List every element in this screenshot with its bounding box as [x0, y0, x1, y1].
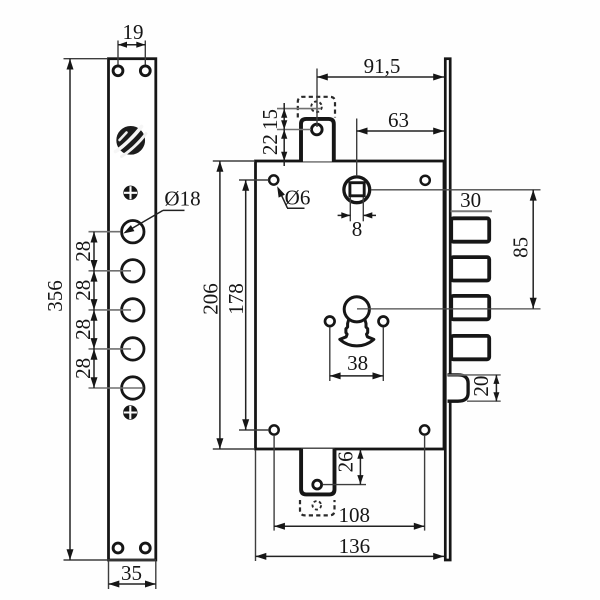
dimension 356 line	[69, 59, 71, 560]
bottom latch hole	[313, 480, 322, 489]
svg-text:178: 178	[224, 283, 248, 315]
brand logo circle	[117, 127, 144, 154]
latch bolt	[448, 375, 469, 401]
svg-text:28: 28	[71, 280, 95, 301]
svg-text:26: 26	[334, 451, 358, 472]
dimension 178 extension lines	[239, 179, 269, 181]
svg-text:38: 38	[347, 351, 368, 375]
faceplate bottom screw hole right	[140, 543, 150, 553]
faceplate bolt hole 1 (Ø18)	[122, 221, 144, 243]
faceplate bottom screw hole left	[113, 543, 123, 553]
spindle follower square	[350, 183, 364, 196]
svg-text:28: 28	[71, 319, 95, 340]
svg-text:63: 63	[388, 108, 409, 132]
top latch dashed hole	[311, 102, 322, 113]
body hole top-right	[421, 176, 430, 185]
svg-text:136: 136	[339, 534, 371, 558]
faceplate bolt hole 2 (Ø18)	[122, 260, 144, 282]
faceplate bolt hole 3 (Ø18)	[122, 299, 144, 321]
dimension 20 line	[495, 375, 497, 401]
deadbolt 1	[451, 218, 489, 241]
svg-text:28: 28	[71, 358, 95, 379]
top latch dashed extended position	[298, 97, 335, 118]
deadbolt 4	[451, 336, 489, 359]
brand logo swoosh	[116, 127, 147, 157]
body hole bottom-right	[420, 425, 429, 434]
svg-text:15: 15	[258, 109, 282, 130]
label Ø18 leader	[127, 210, 164, 231]
svg-text:19: 19	[123, 20, 144, 44]
28 chain extension lines	[89, 231, 121, 233]
dimension 91,5 line	[317, 76, 444, 78]
body hole top-left	[269, 175, 278, 184]
svg-text:Ø18: Ø18	[164, 186, 200, 210]
dimension 38 extension lines	[329, 327, 331, 381]
dimension 30 line	[451, 210, 492, 212]
top latch hole	[312, 124, 323, 135]
dimension 19 line	[118, 44, 145, 46]
svg-text:Ø6: Ø6	[285, 186, 311, 210]
spindle follower circle	[344, 177, 370, 203]
dimension 35 extension lines	[108, 561, 110, 589]
svg-text:28: 28	[71, 241, 95, 262]
faceplate bolt hole 5 (Ø18)	[122, 377, 144, 399]
top latch solid	[301, 119, 334, 162]
dimension 356 extension lines	[64, 58, 108, 60]
svg-text:30: 30	[460, 188, 481, 212]
svg-text:85: 85	[508, 237, 532, 258]
faceplate phillips screw bottom	[124, 406, 137, 419]
body hole bottom-left	[270, 425, 279, 434]
dimension 136 extension line	[255, 451, 257, 562]
svg-text:91,5: 91,5	[364, 54, 401, 78]
dimension 108 extension lines	[273, 436, 275, 531]
dimension 91,5 extension line	[316, 69, 318, 128]
dimension 26 line	[359, 449, 361, 485]
faceplate top screw hole left	[113, 66, 123, 76]
keyhole side hole right	[379, 317, 389, 327]
dimension 26 extension line	[323, 484, 367, 486]
label Ø6 leader	[279, 189, 288, 208]
dimension 35 line	[109, 583, 156, 585]
dimension 206 line	[219, 161, 221, 449]
deadbolt 3	[451, 296, 489, 319]
svg-text:35: 35	[121, 561, 142, 585]
dimension 136 line	[256, 555, 445, 557]
deadbolt 2	[451, 257, 489, 280]
dimension 63 line	[357, 130, 444, 132]
svg-text:108: 108	[338, 503, 370, 527]
keyhole profile circle	[344, 297, 369, 322]
dimension 8 extension lines	[349, 197, 351, 221]
dimension 85 extension lines	[371, 189, 541, 191]
dimension 38 line	[330, 375, 384, 377]
svg-text:356: 356	[43, 280, 67, 312]
svg-text:8: 8	[352, 217, 363, 241]
dimension 15-22 line	[283, 103, 285, 166]
dimension 85 line	[532, 190, 534, 309]
28 chain dimension line	[93, 232, 95, 388]
faceplate bolt hole 4 (Ø18)	[122, 338, 144, 360]
lock body outline	[256, 161, 445, 449]
keyhole side hole left	[325, 317, 335, 327]
faceplate top screw hole right	[140, 66, 150, 76]
bottom latch dashed extended position	[300, 500, 335, 515]
svg-text:206: 206	[198, 283, 222, 315]
strike faceplate outline	[109, 59, 156, 560]
dimension 108 line	[274, 525, 425, 527]
svg-text:20: 20	[469, 376, 493, 397]
dimension 20 extension lines	[448, 374, 501, 376]
dimension 178 line	[245, 180, 247, 430]
svg-text:22: 22	[258, 134, 282, 155]
dimension 8 line	[338, 214, 351, 216]
bottom latch solid	[301, 449, 334, 495]
dimension 19 extension lines	[117, 41, 119, 65]
keyhole profile body	[340, 319, 374, 346]
dimension 63 extension line	[356, 119, 358, 177]
latch travel extension lines	[277, 108, 321, 110]
dimension 206 extension lines	[213, 160, 255, 162]
bottom latch dashed hole	[313, 501, 322, 510]
lock front plate (edge view)	[445, 59, 450, 560]
faceplate phillips screw top	[124, 186, 137, 199]
